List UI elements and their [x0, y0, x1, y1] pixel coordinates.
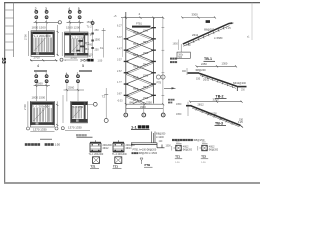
- svg-text:TL-2: TL-2: [87, 26, 93, 29]
- P2 flight break line: [72, 39, 83, 52]
- P2 extension lines: [70, 20, 80, 33]
- P1 mid divider: [46, 34, 48, 52]
- svg-text:1500: 1500: [143, 76, 149, 78]
- TB2 rebar labels: [196, 69, 247, 85]
- P1 top dimension line: [34, 21, 58, 23]
- P2 pre-plan annotation text: [66, 26, 81, 30]
- S leader arrow right: [164, 87, 176, 89]
- TB2 beam top landing: [188, 72, 200, 74]
- P4 right axis bubble: [88, 102, 98, 106]
- TB1 left dim line: [173, 40, 179, 51]
- S landing marks left: [124, 38, 129, 96]
- svg-text:h=90: h=90: [87, 44, 93, 47]
- svg-text:4.47: 4.47: [117, 47, 122, 50]
- D1 column section: [93, 157, 100, 164]
- S top dim tick text: [139, 12, 141, 16]
- svg-text:TB-2: TB-2: [133, 66, 139, 68]
- P1 bottom dimension: [30, 56, 58, 62]
- svg-text:PTB: PTB: [87, 34, 92, 37]
- svg-text:1650: 1650: [176, 103, 182, 106]
- svg-text:5.37: 5.37: [117, 36, 122, 39]
- P1 right wall bar: [53, 32, 55, 55]
- svg-text:840: 840: [130, 100, 135, 104]
- P3 mid divider: [46, 105, 48, 123]
- P4 extension lines: [67, 83, 78, 101]
- svg-text:1:25: 1:25: [226, 27, 231, 30]
- svg-text:Φ8@200: Φ8@200: [204, 29, 215, 32]
- svg-text:1:25: 1:25: [238, 121, 243, 124]
- D3 level symbol: [140, 158, 143, 164]
- svg-text:1500: 1500: [143, 98, 149, 100]
- S small mark upper left: [114, 14, 118, 18]
- svg-text:TB-1: TB-1: [143, 87, 149, 89]
- TB3 end texts: [238, 118, 244, 124]
- TB3 rebar labels: [198, 103, 225, 120]
- S left boundary line: [125, 12, 127, 112]
- svg-text:2700: 2700: [71, 56, 78, 60]
- P2 axis bubbles: [68, 7, 81, 19]
- svg-text:4Φ12: 4Φ12: [209, 146, 215, 149]
- svg-text:1:50: 1:50: [98, 60, 103, 63]
- TB3 caption: [215, 122, 227, 126]
- D2 beam section: [113, 140, 124, 152]
- P1 axis number: [37, 64, 39, 68]
- TB3 left dim line: [176, 102, 188, 116]
- svg-text:TB-3: TB-3: [215, 122, 223, 126]
- TB1 caption: [204, 57, 216, 61]
- S flight zigzag A: [126, 28, 154, 104]
- margin rotated label: [0, 58, 6, 64]
- S left dim line: [121, 18, 123, 57]
- D5 column section TZ2: [198, 145, 207, 150]
- TB1 foundation box: [177, 52, 190, 59]
- P3 plan outline: [30, 101, 54, 127]
- svg-text:TZ2: TZ2: [201, 155, 206, 159]
- P4 plan outline: [71, 101, 88, 123]
- svg-text:TZ: TZ: [102, 95, 106, 99]
- D4 column section TZ1: [172, 145, 181, 150]
- svg-text:L=3580: L=3580: [214, 37, 223, 40]
- P3 caption: [25, 142, 61, 146]
- svg-text:S3: S3: [0, 58, 6, 64]
- TB2 end hook: [236, 87, 238, 91]
- TB3 stirrup ticks: [196, 108, 233, 125]
- svg-text:L=1200: L=1200: [156, 137, 164, 139]
- svg-text:1500: 1500: [143, 53, 149, 55]
- svg-text:5: 5: [82, 64, 84, 68]
- P3 left wall bar: [30, 102, 32, 125]
- S flight zigzag B: [126, 28, 154, 104]
- S bottom dim row 2: [126, 105, 163, 109]
- TB1 stirrup ticks: [188, 27, 224, 46]
- TB2 beam lower landing: [237, 86, 247, 88]
- D4 side text: [183, 146, 193, 152]
- svg-text:L50: L50: [187, 44, 192, 47]
- svg-text:3300: 3300: [140, 105, 146, 109]
- S right boundary line: [153, 18, 155, 104]
- page top border: [4, 2, 260, 4]
- P1 bottom beam band: [31, 52, 55, 55]
- P4 left dim line: [62, 95, 64, 123]
- D1 caption: [90, 164, 99, 168]
- svg-text:Φ8@200: Φ8@200: [156, 133, 166, 136]
- svg-text:TB-2: TB-2: [133, 78, 139, 80]
- svg-text:TL-2 200x300: TL-2 200x300: [112, 153, 127, 156]
- TB2 end small text: [241, 90, 246, 92]
- svg-text:2Φ12: 2Φ12: [198, 103, 205, 106]
- svg-text:4Φ12: 4Φ12: [103, 147, 110, 150]
- svg-text:250: 250: [95, 29, 100, 32]
- TB1 right small mark: [247, 37, 250, 39]
- svg-text:-0.03: -0.03: [117, 100, 123, 103]
- TB2 beam diagonal: [199, 73, 237, 86]
- TB1 right page extension line: [251, 3, 253, 40]
- D2 under text: [112, 153, 127, 156]
- svg-text:1.77: 1.77: [117, 81, 122, 84]
- svg-text:1800 1500: 1800 1500: [32, 26, 47, 30]
- svg-text:Φ6@200: Φ6@200: [209, 149, 219, 152]
- S bottom axis stubs: [126, 104, 163, 112]
- D2 side text: [126, 144, 136, 150]
- P1 plan outline: [31, 31, 55, 57]
- P2 left wall bar: [69, 33, 71, 55]
- P2 tread hatch: [72, 39, 83, 53]
- TB3 soffit line: [192, 108, 240, 127]
- D2 caption: [113, 164, 122, 168]
- svg-text:TL-1 200x300: TL-1 200x300: [89, 153, 104, 156]
- P2 right margin marks: [85, 41, 89, 51]
- page bottom border: [4, 182, 260, 184]
- D5 caption: [201, 155, 208, 165]
- svg-text:KL: KL: [100, 46, 104, 50]
- P4 top dimension line: [64, 89, 85, 91]
- D1 side text: [103, 144, 113, 150]
- svg-text:2.67: 2.67: [117, 70, 122, 73]
- P3 bottom dim row: [27, 127, 59, 132]
- svg-text:4: 4: [37, 64, 39, 68]
- D3 anchor bar text: [156, 133, 166, 140]
- TB3 top dim text: [213, 97, 220, 101]
- margin ticks: [5, 10, 14, 50]
- TB1 end drop line: [181, 44, 191, 52]
- TB2 top dim text: [201, 62, 228, 66]
- P3 top beam band: [30, 102, 54, 109]
- P2 left dimension marks: [61, 32, 63, 56]
- TB2 side note text: [170, 58, 177, 64]
- P2 bottom level text: [80, 58, 94, 62]
- svg-text:TB-1: TB-1: [204, 57, 212, 61]
- svg-text:1370 1330: 1370 1330: [33, 128, 47, 132]
- svg-text:6Φ12@200: 6Φ12@200: [233, 82, 246, 85]
- mid column axis line: [100, 28, 106, 58]
- TB2 soffit line: [200, 75, 236, 88]
- P3 right dimension line: [56, 101, 58, 127]
- svg-text:3Φ8: 3Φ8: [220, 117, 225, 120]
- P4 axis bubbles: [66, 71, 80, 82]
- page inner left line: [13, 3, 15, 57]
- D5 side text: [209, 146, 219, 152]
- svg-text:1500: 1500: [166, 146, 172, 148]
- S bottom axis bubbles: [124, 113, 165, 117]
- P2 interior annotation marks: [77, 40, 86, 51]
- svg-text:TB-2: TB-2: [133, 55, 139, 57]
- svg-text:345#: 345#: [80, 58, 88, 62]
- D3 right small dims: [159, 141, 172, 148]
- svg-text:900: 900: [182, 70, 187, 73]
- S top landing slab: [132, 26, 151, 28]
- P3 axis bubbles: [35, 71, 48, 82]
- svg-text:TZ1: TZ1: [113, 164, 118, 168]
- svg-text:B1: B1: [85, 47, 89, 51]
- S outer right dim line: [162, 18, 164, 104]
- svg-text:TB-1: TB-1: [143, 64, 149, 66]
- P4 tread hatch: [72, 106, 81, 119]
- svg-text:2250: 2250: [146, 100, 152, 104]
- D5 dim above: [202, 142, 208, 144]
- svg-text:1800 1500: 1800 1500: [32, 96, 46, 100]
- P2 right axis line and bubble: [89, 20, 94, 59]
- svg-text:1500 1200: 1500 1200: [66, 26, 81, 30]
- P3 flight break line: [33, 108, 45, 121]
- P1 left wall bar: [31, 32, 33, 55]
- D1 beam section: [90, 140, 101, 152]
- S top dim line: [121, 17, 164, 19]
- svg-text:1500: 1500: [95, 39, 101, 42]
- svg-text:0.87: 0.87: [117, 92, 122, 95]
- svg-text:1650: 1650: [173, 43, 179, 46]
- svg-text:1300: 1300: [222, 62, 228, 66]
- svg-text:4Φ14: 4Φ14: [126, 147, 133, 150]
- svg-text:150: 150: [196, 78, 201, 81]
- P1 axis bubbles: [35, 7, 48, 19]
- P1 tread hatch left flight: [34, 38, 45, 52]
- S right outer tick marks: [162, 28, 165, 96]
- TB3 end hook: [240, 125, 243, 127]
- TB1 stringer beam: [183, 23, 233, 44]
- svg-text:1650: 1650: [176, 113, 182, 116]
- P1 pre-plan annotation text: [32, 26, 47, 30]
- TB1 top dim line: [181, 16, 216, 18]
- TB3 beam diagonal: [191, 106, 241, 126]
- P2 top dimension line: [67, 21, 84, 23]
- P3 top dimension line: [34, 85, 50, 87]
- svg-text:Φ8@250 L=1500: Φ8@250 L=1500: [139, 152, 158, 155]
- svg-text:TZ1: TZ1: [91, 164, 96, 168]
- TB3 upper-left small note: [168, 99, 175, 104]
- P2 bottom dimension: [65, 56, 79, 60]
- svg-text:TZ1: TZ1: [175, 155, 180, 159]
- svg-text:2700: 2700: [34, 56, 41, 60]
- D4 caption: [175, 155, 182, 165]
- S flight labels: [133, 31, 149, 103]
- S landing marks right: [151, 27, 156, 96]
- D2 column section: [115, 157, 122, 164]
- svg-text:2700: 2700: [23, 34, 27, 40]
- P4 caption text: [76, 134, 87, 136]
- svg-text:2250: 2250: [201, 62, 207, 66]
- P3 left dimension marks: [23, 101, 28, 127]
- page left border: [4, 3, 6, 184]
- svg-text:4Φ12: 4Φ12: [183, 146, 189, 149]
- svg-text:Φ6@200: Φ6@200: [183, 149, 193, 152]
- svg-text:2560: 2560: [37, 81, 44, 85]
- P1 left dimension marks: [23, 31, 28, 56]
- P2 scale text: [98, 60, 103, 63]
- TB1 rebar labels: [192, 29, 223, 41]
- TB3 top dim line: [189, 101, 243, 103]
- TB1 top end text: [226, 22, 234, 30]
- P1 top beam band: [31, 32, 55, 39]
- P4 caption line: [77, 136, 93, 138]
- svg-text:TB-3: TB-3: [133, 100, 139, 102]
- svg-text:PTB: PTB: [145, 163, 151, 167]
- svg-text:3.57: 3.57: [117, 59, 122, 62]
- svg-text:3300: 3300: [213, 97, 220, 101]
- standalone axis line with bubble: [102, 88, 108, 123]
- svg-text:250: 250: [95, 49, 100, 52]
- svg-text:TB-2: TB-2: [133, 89, 139, 91]
- S top landing label: [136, 23, 143, 26]
- P1 extension lines: [36, 20, 46, 32]
- svg-text:6.27: 6.27: [117, 25, 122, 28]
- svg-text:TB-2: TB-2: [133, 44, 139, 46]
- D4 dim above: [176, 142, 182, 144]
- P3 tread hatch left flight: [33, 108, 44, 122]
- P3 bottom beam band: [30, 122, 54, 125]
- P3 top dim text: [37, 81, 44, 85]
- P2 caption underline: [79, 70, 92, 72]
- svg-text:2560: 2560: [68, 86, 75, 90]
- TB1 top tick mark: [206, 20, 210, 23]
- P2 axis number: [82, 64, 84, 68]
- S bottom dim row 1: [125, 100, 164, 105]
- svg-text:TB-2: TB-2: [133, 33, 139, 35]
- P2 bottom beam band: [65, 53, 89, 56]
- S right annotation circles: [156, 75, 165, 85]
- D1 under text: [89, 153, 104, 156]
- svg-text:Φ8@200: Φ8@200: [207, 113, 218, 116]
- P2 plan outline: [65, 32, 89, 57]
- S flight soffit lines: [126, 29, 154, 103]
- P4 bottom beam band: [71, 119, 88, 122]
- P1 tread hatch right flight: [49, 38, 52, 52]
- S caption: [131, 124, 150, 129]
- P1 right dimension line: [57, 25, 59, 56]
- P3 tread hatch right flight: [48, 108, 51, 122]
- svg-text:1:50: 1:50: [55, 142, 61, 146]
- svg-text:PTB: PTB: [157, 82, 162, 85]
- P2 right wall bar: [84, 33, 86, 55]
- P3 caption dim line: [39, 138, 53, 141]
- P4 bottom dim row: [61, 126, 90, 131]
- svg-text:PTB1: PTB1: [136, 23, 143, 26]
- TB2 caption: [215, 94, 227, 98]
- P1 top axis circle right: [58, 21, 61, 24]
- P3 right wall bar: [52, 102, 54, 125]
- P3 pre-plan annotation text: [32, 96, 46, 100]
- P4 right wall bar: [84, 102, 86, 121]
- P1 bottom axis bubble: [60, 58, 67, 62]
- svg-text:TB-1: TB-1: [143, 42, 149, 44]
- P2 top beam band: [65, 33, 89, 40]
- P4 flight break line: [73, 107, 83, 118]
- P3 extension lines: [36, 83, 46, 101]
- S level text labels left: [117, 25, 123, 103]
- D3 landing slab plate: [131, 143, 165, 148]
- svg-text:1500: 1500: [143, 31, 149, 33]
- D3 caption: [144, 163, 153, 167]
- svg-text:1370 1330: 1370 1330: [68, 126, 82, 130]
- TB2 top dim line: [196, 65, 238, 67]
- TB2 stirrup ticks: [202, 74, 233, 88]
- TB3 beam top landing: [186, 105, 192, 107]
- TB1 stringer soffit: [183, 26, 229, 47]
- TB1 top dim text: [192, 13, 199, 17]
- svg-text:1-1: 1-1: [131, 124, 138, 129]
- P2 right annotation noise: [87, 21, 101, 57]
- TB2 left dim line: [182, 68, 187, 75]
- svg-text:2Φ12: 2Φ12: [192, 34, 199, 37]
- svg-text:Φ8@200: Φ8@200: [196, 69, 207, 72]
- svg-text:2700: 2700: [23, 104, 27, 110]
- TB3 bottom note row: [172, 138, 205, 142]
- P4 top beam band: [71, 102, 88, 109]
- P1 flight break line: [34, 38, 46, 51]
- D3 text rows: [132, 149, 158, 156]
- svg-text:3300: 3300: [192, 13, 199, 17]
- svg-text:150: 150: [230, 22, 235, 25]
- D3 anchor bars: [152, 132, 156, 144]
- svg-text:2Φ12: 2Φ12: [203, 79, 210, 82]
- P1 caption underline: [34, 70, 47, 72]
- P4 left wall bar: [71, 102, 73, 121]
- P4 top dim text: [68, 86, 75, 90]
